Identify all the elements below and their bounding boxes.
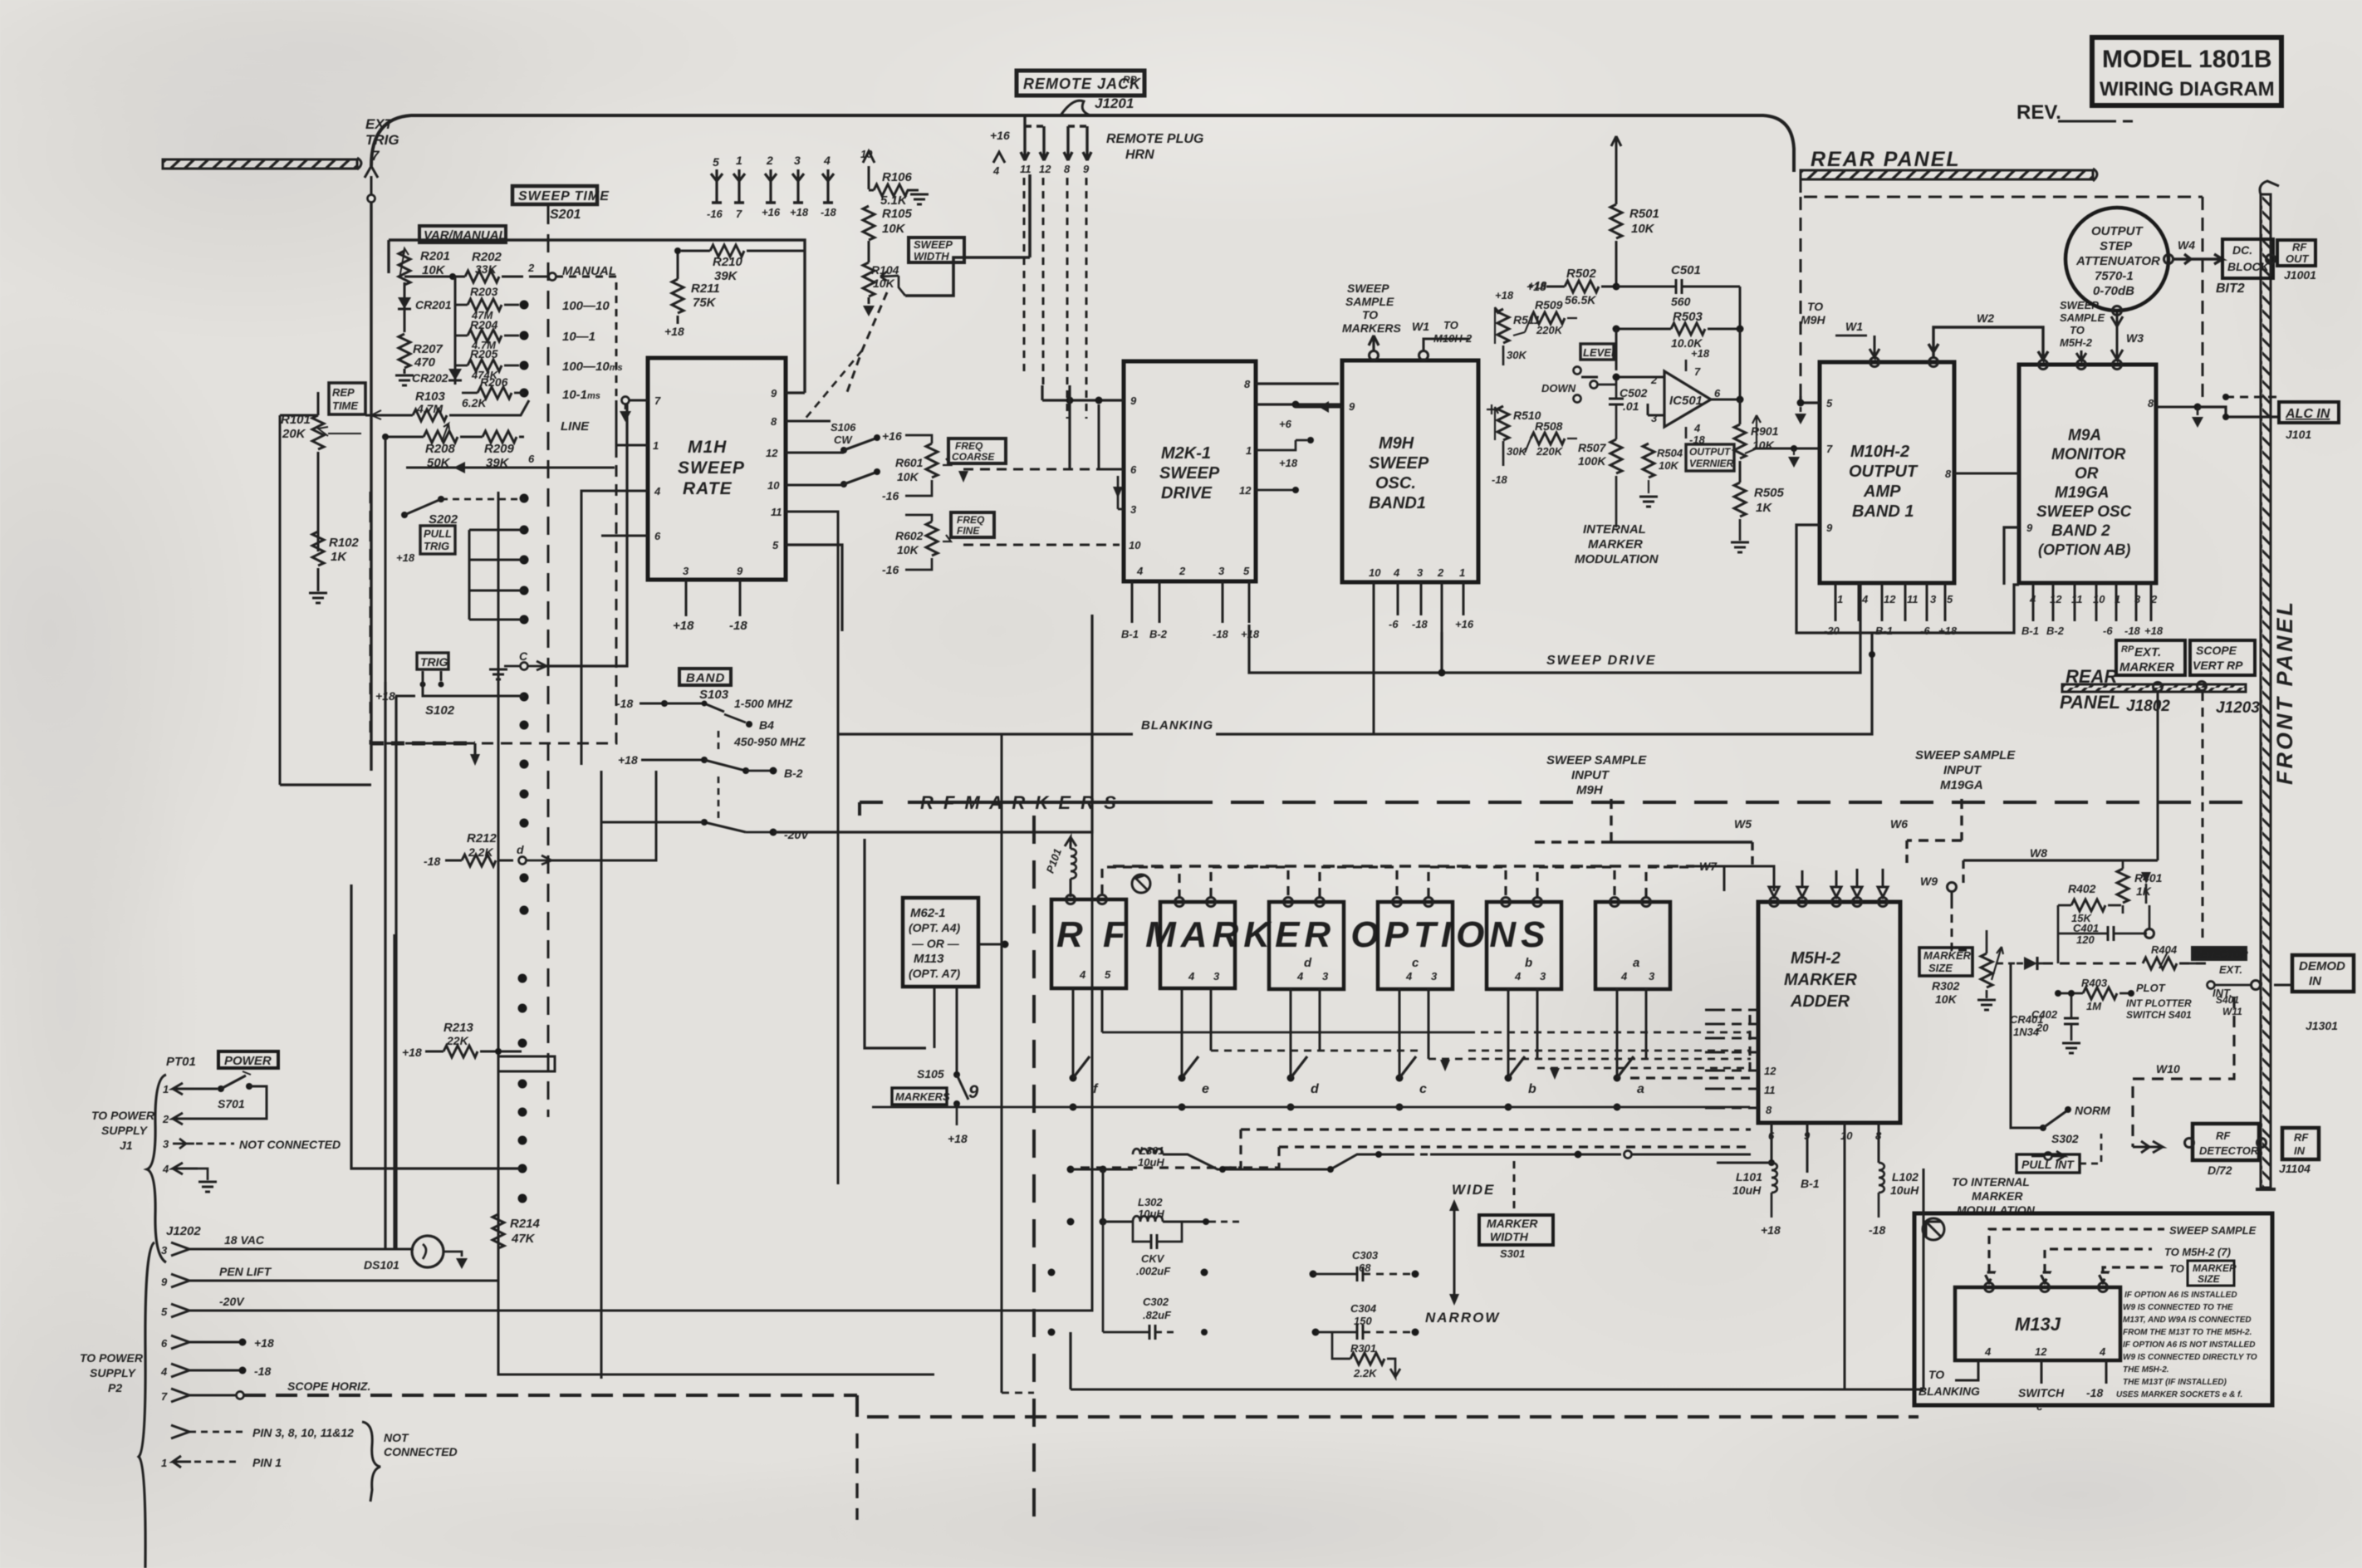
dashed wafer box around manual rows (529, 277, 616, 400)
svg-text:MODEL 1801B: MODEL 1801B (2102, 46, 2272, 73)
svg-text:-18: -18 (2086, 1386, 2103, 1399)
svg-text:DEMOD: DEMOD (2299, 959, 2345, 973)
svg-text:SAMPLE: SAMPLE (2060, 311, 2105, 324)
pin 4 ground (162, 1163, 217, 1192)
svg-text:FREQ: FREQ (955, 440, 983, 452)
svg-text:M13T, AND W9A IS CONNECTED: M13T, AND W9A IS CONNECTED (2123, 1316, 2252, 1325)
svg-text:MARKER: MARKER (1487, 1217, 1538, 1230)
svg-text:10K: 10K (882, 222, 906, 236)
wire: M62 right pin to bus (978, 943, 1005, 946)
svg-text:WIDTH: WIDTH (914, 250, 949, 262)
svg-text:R207: R207 (413, 342, 443, 356)
svg-text:NOT: NOT (384, 1431, 409, 1444)
svg-text:6: 6 (161, 1337, 168, 1350)
svg-text:W3: W3 (2126, 331, 2144, 345)
svg-text:IN: IN (2309, 974, 2322, 988)
wire: INT plotter to W10 (2133, 997, 2234, 1153)
svg-text:PIN 3, 8, 10, 11&12: PIN 3, 8, 10, 11&12 (252, 1426, 354, 1439)
svg-text:TO: TO (2070, 324, 2085, 336)
svg-text:B-1: B-1 (1875, 625, 1893, 637)
svg-text:B-2: B-2 (2046, 625, 2065, 637)
SWEEP WIDTH label (909, 238, 964, 262)
connector row pins 5 1 2 3 4 (713, 154, 831, 169)
wire: pin9 right to loop (786, 391, 805, 394)
resistor R207 470 (395, 334, 443, 385)
svg-text:R502: R502 (1566, 267, 1597, 281)
svg-text:MARKER: MARKER (2119, 660, 2174, 674)
svg-text:PT01: PT01 (166, 1055, 196, 1069)
resistor R202 33K (404, 250, 523, 282)
svg-text:-18: -18 (821, 206, 837, 218)
svg-text:5: 5 (1105, 968, 1111, 981)
wire: common row under switches (1072, 1077, 1074, 1079)
svg-text:10: 10 (1840, 1129, 1853, 1142)
J1202 pin 4 -18 (160, 1364, 271, 1378)
svg-text:+16: +16 (762, 206, 781, 218)
svg-text:MARKER: MARKER (1784, 971, 1857, 989)
svg-text:L102: L102 (1892, 1170, 1919, 1183)
rear panel label top right (1801, 148, 2097, 181)
svg-text:SIZE: SIZE (1928, 962, 1953, 974)
svg-text:9: 9 (771, 387, 777, 399)
remote plug arrows J1201 (1021, 115, 1091, 160)
svg-text:-20: -20 (1824, 625, 1840, 637)
S201 contact dots column (518, 301, 529, 1203)
TO M9H + W1 label (1801, 300, 1879, 357)
svg-text:RF: RF (2294, 1131, 2309, 1144)
svg-text:B-2: B-2 (784, 767, 803, 780)
svg-text:6.2K: 6.2K (462, 396, 487, 409)
resistor R214 47K (492, 1071, 541, 1281)
wire: pin1 (616, 400, 648, 445)
svg-text:R301: R301 (1350, 1342, 1376, 1355)
switch S202 (401, 496, 524, 527)
svg-text:+16: +16 (990, 129, 1010, 142)
svg-text:560: 560 (1671, 295, 1691, 308)
pot R601 10K FREQ COARSE (882, 429, 951, 502)
svg-text:10: 10 (767, 479, 780, 492)
resistor R507 100K (1578, 439, 1622, 527)
svg-text:a: a (1637, 1082, 1644, 1096)
svg-text:b: b (1528, 1082, 1536, 1096)
svg-text:-18: -18 (424, 855, 440, 868)
wire: pin11/5 drop verticals (786, 512, 838, 1184)
diode CR401 1N34 (2010, 957, 2045, 1038)
wire: M13J pin drops (1955, 1360, 2106, 1384)
svg-text:100—10: 100—10 (562, 299, 610, 313)
switch S103 row1 (616, 697, 792, 732)
svg-text:470: 470 (414, 355, 436, 370)
svg-text:1-500 MHZ: 1-500 MHZ (734, 697, 792, 710)
svg-text:L302: L302 (1138, 1196, 1163, 1208)
svg-text:SWEEP TIME: SWEEP TIME (518, 189, 610, 203)
svg-text:M9H: M9H (1801, 313, 1825, 326)
svg-text:4.7M: 4.7M (416, 402, 443, 415)
shield bar top-left (163, 158, 361, 169)
svg-text:BLOCK: BLOCK (2227, 260, 2270, 273)
svg-text:4: 4 (1405, 970, 1413, 982)
svg-text:4: 4 (1136, 565, 1144, 577)
svg-text:TO POWER: TO POWER (91, 1109, 155, 1122)
svg-text:+18: +18 (618, 753, 638, 767)
FREQ FINE label (951, 512, 994, 537)
svg-text:1: 1 (163, 1083, 169, 1095)
block M5H-2 MARKER ADDER (1758, 902, 1900, 1123)
svg-text:SWEEP DRIVE: SWEEP DRIVE (1546, 654, 1657, 668)
PULL INT label (2017, 1134, 2101, 1173)
svg-text:+18: +18 (790, 206, 809, 218)
svg-text:FROM THE M13T TO THE M5H-2.: FROM THE M13T TO THE M5H-2. (2123, 1328, 2252, 1337)
svg-text:M62-1: M62-1 (910, 906, 946, 920)
svg-text:-6: -6 (2103, 625, 2113, 637)
pot R602 10K FREQ FINE (882, 515, 951, 576)
svg-text:R211: R211 (691, 282, 720, 296)
svg-text:1: 1 (1246, 444, 1252, 457)
svg-text:2: 2 (1437, 566, 1444, 579)
svg-text:SCOPE: SCOPE (2196, 644, 2237, 657)
dashed enclosure rear panel (1801, 179, 2203, 197)
svg-text:S302: S302 (2051, 1132, 2079, 1145)
pot R201 10K (399, 248, 450, 285)
svg-text:(OPT. A4): (OPT. A4) (909, 921, 961, 934)
title block MODEL 1801B WIRING DIAGRAM (2092, 37, 2281, 105)
svg-text:TO M5H-2 (7): TO M5H-2 (7) (2164, 1246, 2231, 1258)
svg-text:1: 1 (1837, 593, 1843, 605)
wire: markers bottom bus (1071, 1389, 1923, 1391)
wire: M2K-1 right pin9 out (1256, 403, 1342, 405)
svg-text:R508: R508 (1535, 419, 1563, 433)
RF DETECTOR D/72 (2185, 1124, 2266, 1177)
svg-text:68: 68 (1359, 1262, 1371, 1274)
svg-text:5: 5 (161, 1306, 168, 1318)
resistor R106 5.1K (869, 170, 919, 208)
DC BLOCK BIT2 (2216, 239, 2276, 296)
svg-text:5: 5 (772, 539, 779, 551)
SWEEP SAMPLE INPUT M9H (1546, 753, 1647, 797)
svg-text:7570-1: 7570-1 (2095, 269, 2134, 283)
svg-text:-18: -18 (616, 697, 633, 710)
svg-text:R208: R208 (425, 442, 456, 456)
svg-text:J1201: J1201 (1095, 96, 1134, 111)
svg-text:C303: C303 (1352, 1249, 1379, 1262)
W1 pin to M10H-2 (1412, 319, 1473, 360)
svg-text:W9 IS CONNECTED TO THE: W9 IS CONNECTED TO THE (2123, 1303, 2233, 1312)
svg-text:R507: R507 (1578, 441, 1607, 454)
svg-text:SWEEP: SWEEP (678, 458, 745, 478)
svg-text:MARKER: MARKER (1588, 537, 1643, 551)
svg-text:220K: 220K (1536, 445, 1564, 458)
rear panel bar lower (J1802/J1203) (2060, 666, 2260, 717)
svg-text:CW: CW (834, 434, 853, 446)
coil P101 (1044, 837, 1076, 897)
pin7 input (620, 397, 648, 423)
svg-text:9: 9 (161, 1276, 168, 1288)
svg-text:+18: +18 (1279, 457, 1298, 469)
svg-text:b: b (1525, 956, 1532, 970)
svg-text:10K: 10K (422, 263, 446, 277)
svg-text:BAND 2: BAND 2 (2051, 522, 2110, 540)
svg-text:B-1: B-1 (1121, 628, 1139, 640)
capacitor C501 560 (1616, 263, 1740, 329)
switch S103 row3 (601, 760, 810, 841)
svg-text:J1203: J1203 (2216, 699, 2260, 717)
svg-text:TO INTERNAL: TO INTERNAL (1952, 1175, 2030, 1188)
svg-text:EXT.: EXT. (2134, 645, 2161, 659)
svg-text:-18: -18 (254, 1365, 271, 1378)
svg-text:PANEL: PANEL (2060, 692, 2120, 713)
svg-text:R102: R102 (329, 536, 360, 550)
svg-text:10K: 10K (1659, 459, 1679, 472)
SWEEP TIME label (512, 186, 610, 222)
front panel bar (vertical) (2256, 181, 2279, 1189)
svg-text:7: 7 (736, 208, 742, 220)
svg-text:W9: W9 (1920, 875, 1938, 888)
svg-text:OSC.: OSC. (1375, 474, 1416, 492)
svg-text:+16: +16 (1455, 618, 1474, 630)
svg-text:NOT CONNECTED: NOT CONNECTED (239, 1138, 341, 1151)
svg-text:ATTENUATOR: ATTENUATOR (2075, 254, 2160, 268)
svg-text:11: 11 (1907, 593, 1919, 605)
DEMOD IN J1301 (2274, 955, 2354, 1032)
svg-text:1K: 1K (1756, 501, 1772, 515)
switch S701 + pins 1,2 (162, 1071, 267, 1125)
svg-text:M13J: M13J (2015, 1314, 2061, 1335)
svg-text:c: c (1419, 1082, 1427, 1096)
switch S103 row2 (618, 703, 806, 780)
svg-text:EXT.: EXT. (2219, 963, 2242, 976)
resistor R203 47M (455, 285, 519, 321)
svg-text:10K: 10K (897, 543, 919, 556)
svg-text:SWEEP SAMPLE: SWEEP SAMPLE (1546, 753, 1647, 767)
capacitor C402 20 (2031, 990, 2080, 1053)
RF IN J1104 (2279, 1128, 2319, 1175)
svg-text:REP: REP (332, 386, 355, 399)
svg-text:2: 2 (1179, 565, 1186, 577)
wire: M9A bottom pin fan (2033, 583, 2151, 621)
svg-text:B4: B4 (759, 718, 774, 732)
capacitor C302 .82uF (1103, 1222, 1208, 1340)
svg-text:9: 9 (1349, 400, 1355, 413)
wire: W7 bus into M5H-2 (1113, 860, 1774, 891)
wire: M62 bottom pins (934, 987, 936, 1048)
crossed circle symbol (1923, 1218, 1944, 1240)
svg-text:10K: 10K (1935, 992, 1958, 1006)
svg-text:INT.: INT. (2213, 987, 2232, 999)
switch S302 NORM (2031, 1104, 2110, 1161)
wire: to pin6 row (385, 437, 615, 682)
wire: pin8 (786, 420, 831, 423)
inductor L101 10uH (1717, 1159, 1781, 1237)
svg-text:B-1: B-1 (1801, 1177, 1820, 1190)
J1202 pin 5 -20V (161, 832, 1092, 1318)
svg-text:3: 3 (1218, 565, 1225, 577)
option block top pins (1066, 895, 1651, 907)
option pin letters/numbers (1079, 956, 1655, 982)
svg-text:LINE: LINE (561, 419, 590, 434)
svg-text:4: 4 (654, 485, 661, 497)
svg-text:+18: +18 (1691, 347, 1710, 360)
svg-text:6: 6 (1130, 463, 1137, 476)
svg-text:W4: W4 (2178, 238, 2195, 252)
svg-text:+6: +6 (1279, 418, 1292, 430)
contact C with ground (489, 397, 627, 679)
svg-text:(OPTION AB): (OPTION AB) (2038, 541, 2130, 558)
S201 row labels (561, 299, 623, 434)
svg-text:11: 11 (1020, 163, 1032, 175)
svg-text:1M: 1M (2086, 1000, 2102, 1012)
svg-text:PLOT: PLOT (2136, 982, 2166, 994)
svg-text:12: 12 (1884, 593, 1896, 605)
M13J pin numbers (1984, 1345, 2106, 1358)
svg-text:C304: C304 (1350, 1302, 1377, 1315)
wire: M9H pin 9 input (1296, 406, 1342, 409)
J1202 pin 6 +18 (161, 1335, 274, 1350)
svg-text:18 VAC: 18 VAC (224, 1233, 265, 1247)
svg-text:HRN: HRN (1125, 148, 1154, 162)
svg-text:-18: -18 (1213, 628, 1229, 640)
svg-text:12: 12 (2050, 593, 2062, 605)
svg-text:W2: W2 (1977, 311, 1994, 325)
svg-text:PEN LIFT: PEN LIFT (219, 1265, 272, 1278)
svg-text:-6: -6 (1920, 625, 1930, 637)
svg-text:SWEEP: SWEEP (1347, 282, 1389, 295)
svg-text:(OPT. A7): (OPT. A7) (909, 967, 961, 980)
svg-text:10uH: 10uH (1890, 1183, 1919, 1197)
svg-text:VERNIER: VERNIER (1689, 458, 1734, 469)
svg-text:C302: C302 (1143, 1296, 1169, 1308)
M1H pin numbers (653, 387, 782, 577)
W9 pin circle (1920, 875, 1973, 950)
PLOT / INT PLOTTER SWITCH S401 (2126, 982, 2232, 1021)
svg-text:0-70dB: 0-70dB (2093, 284, 2134, 298)
M9H pin numbers (1349, 400, 1465, 579)
svg-text:2: 2 (766, 154, 773, 167)
svg-text:W1: W1 (1845, 320, 1863, 333)
svg-text:AMP: AMP (1863, 483, 1901, 501)
block M9H SWEEP OSC BAND1 (1342, 360, 1478, 582)
wire: M2K-1 pin9 input (1042, 399, 1124, 401)
svg-text:M19GA: M19GA (2055, 484, 2109, 502)
svg-text:3: 3 (794, 154, 801, 167)
wire: rep time row (318, 392, 365, 415)
svg-text:6: 6 (1714, 387, 1721, 399)
svg-text:56.5K: 56.5K (1565, 293, 1596, 306)
svg-text:4: 4 (160, 1365, 168, 1378)
svg-text:M10H-2: M10H-2 (1850, 443, 1909, 461)
svg-text:MARKERS: MARKERS (1342, 321, 1401, 335)
wire: W5 dashed drop (1528, 799, 1752, 865)
resistor R503 10.0K (1613, 310, 1744, 399)
resistor R211 75K (664, 247, 720, 338)
svg-text:RF: RF (2292, 241, 2307, 253)
svg-text:R204: R204 (470, 318, 498, 331)
svg-text:R209: R209 (484, 442, 515, 456)
marker option block e (1487, 902, 1561, 989)
svg-text:30K: 30K (1507, 349, 1527, 361)
svg-text:4: 4 (162, 1163, 169, 1175)
svg-text:INPUT: INPUT (1571, 768, 1610, 782)
svg-text:J1001: J1001 (2284, 268, 2316, 282)
svg-text:R601: R601 (895, 456, 924, 469)
svg-text:M9H: M9H (1576, 783, 1604, 797)
svg-text:20: 20 (2036, 1022, 2049, 1034)
svg-text:NORM: NORM (2075, 1104, 2110, 1117)
svg-text:TRIG: TRIG (424, 540, 449, 552)
svg-text:+18: +18 (664, 325, 684, 338)
svg-text:R302: R302 (1932, 979, 1960, 992)
svg-text:M113: M113 (914, 952, 944, 966)
inductor L102 10uH (1869, 1163, 1919, 1237)
wire: pin6 (601, 535, 648, 537)
svg-text:RATE: RATE (683, 479, 733, 498)
svg-text:+18: +18 (396, 551, 415, 564)
wire: main top run (371, 115, 1794, 172)
J1202 pin 3 18VAC (161, 1233, 414, 1257)
svg-text:NARROW: NARROW (1425, 1310, 1500, 1325)
svg-text:MARKERS: MARKERS (895, 1090, 950, 1103)
MANUAL contact (527, 262, 616, 281)
svg-text:TO: TO (1928, 1368, 1944, 1381)
svg-text:W11: W11 (2222, 1006, 2242, 1017)
svg-text:BAND1: BAND1 (1369, 494, 1426, 512)
svg-text:1: 1 (653, 439, 659, 452)
switch level/down contacts (1541, 367, 1616, 403)
MARKER SIZE label + pot R302 (1919, 930, 2017, 1010)
svg-text:12: 12 (1039, 163, 1051, 175)
svg-text:9: 9 (1826, 522, 1833, 534)
svg-text:MARKER: MARKER (2193, 1262, 2237, 1274)
svg-text:D/72: D/72 (2208, 1164, 2232, 1177)
svg-text:S201: S201 (550, 208, 581, 222)
svg-text:LEVEL: LEVEL (1583, 346, 1618, 359)
marker option block b (1160, 902, 1235, 988)
M13J outer enclosure (1914, 1213, 2272, 1405)
svg-text:CR202: CR202 (412, 371, 448, 385)
svg-text:SWEEP SAMPLE: SWEEP SAMPLE (1915, 748, 2016, 762)
svg-text:FRONT PANEL: FRONT PANEL (2272, 600, 2297, 785)
ground at R106 (910, 194, 929, 204)
svg-text:4: 4 (1079, 968, 1086, 981)
svg-text:R509: R509 (1535, 298, 1563, 311)
svg-text:B-1: B-1 (2021, 625, 2039, 637)
svg-text:4: 4 (823, 154, 831, 167)
svg-text:8: 8 (1766, 1104, 1772, 1116)
svg-text:+16: +16 (882, 429, 902, 443)
svg-text:CR201: CR201 (415, 298, 452, 311)
svg-text:47K: 47K (511, 1232, 536, 1246)
switch S105 MARKERS (892, 987, 979, 1145)
dashed bus to marker size (2098, 1261, 2237, 1286)
svg-text:S106: S106 (831, 421, 856, 434)
svg-text:— OR —: — OR — (911, 937, 960, 950)
svg-text:-16: -16 (882, 563, 899, 576)
capacitor C304 150 + resistor R301 2.2K (1312, 1302, 1419, 1379)
svg-text:MARKER: MARKER (1923, 949, 1972, 962)
switch S102 (375, 671, 524, 718)
wire: left loop verticals (384, 682, 386, 1250)
block M9A MONITOR / M19GA (2019, 365, 2156, 583)
resistor R501 10K (1610, 136, 1659, 287)
svg-text:SWEEP SAMPLE: SWEEP SAMPLE (2169, 1224, 2257, 1237)
svg-text:TO: TO (1362, 308, 1378, 321)
svg-text:-20V: -20V (784, 828, 810, 841)
wire: harness verticals to M2K (1042, 385, 1070, 468)
connector J1203 (2198, 682, 2207, 691)
svg-text:BAND: BAND (686, 671, 725, 685)
wire: J1802 drop (2157, 692, 2159, 860)
svg-text:WIRING DIAGRAM: WIRING DIAGRAM (2100, 78, 2275, 100)
svg-text:TRIG: TRIG (420, 655, 448, 669)
